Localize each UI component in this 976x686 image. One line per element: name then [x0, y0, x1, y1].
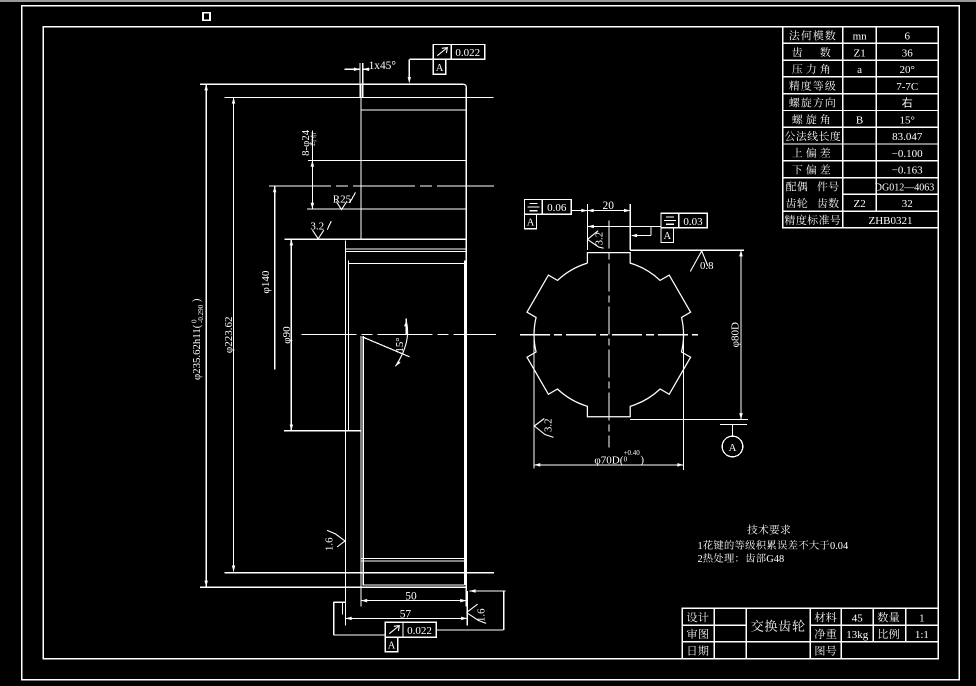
svg-text:1: 1 — [919, 612, 925, 624]
svg-text:0.04: 0.04 — [830, 541, 849, 552]
svg-text:φ235.62h11(: φ235.62h11( — [191, 324, 203, 380]
svg-text:): ) — [640, 454, 644, 466]
svg-text:1.6: 1.6 — [324, 537, 336, 551]
svg-text:0.8: 0.8 — [700, 260, 714, 272]
svg-text:20°: 20° — [899, 64, 914, 76]
svg-text:A: A — [388, 640, 396, 651]
svg-text:15°: 15° — [899, 114, 914, 126]
svg-text:0.03: 0.03 — [683, 216, 703, 228]
svg-text:1: 1 — [698, 541, 703, 552]
svg-text:−0.100: −0.100 — [892, 148, 923, 160]
svg-text:R25: R25 — [333, 193, 352, 205]
svg-text:A: A — [664, 231, 672, 242]
svg-text:Z1: Z1 — [853, 47, 865, 59]
svg-text:φ70D(: φ70D( — [594, 454, 623, 466]
svg-text:13kg: 13kg — [846, 629, 869, 641]
svg-text:6: 6 — [904, 31, 910, 43]
svg-text:1:1: 1:1 — [915, 629, 929, 641]
svg-text:20: 20 — [603, 200, 615, 212]
svg-text:φ140: φ140 — [260, 270, 272, 293]
svg-text:2: 2 — [698, 554, 703, 565]
svg-text:A: A — [527, 217, 535, 228]
svg-text:右: 右 — [902, 96, 913, 110]
svg-text:ZHB0321: ZHB0321 — [869, 215, 913, 227]
svg-text:1x45°: 1x45° — [369, 60, 396, 72]
svg-text:G48: G48 — [766, 554, 784, 565]
svg-text:3.2: 3.2 — [543, 419, 555, 433]
svg-text:): ) — [192, 299, 203, 302]
svg-text:−0.163: −0.163 — [892, 165, 923, 177]
svg-text:57: 57 — [400, 608, 412, 620]
svg-text:0.06: 0.06 — [547, 202, 567, 214]
svg-text:mn: mn — [853, 31, 868, 43]
svg-text:A: A — [436, 63, 444, 74]
svg-text:1.6: 1.6 — [476, 608, 488, 622]
svg-text:a: a — [857, 64, 862, 76]
svg-text:7-7C: 7-7C — [896, 81, 918, 93]
svg-text:36: 36 — [902, 47, 914, 59]
svg-text:3.2: 3.2 — [593, 232, 605, 246]
svg-text:32: 32 — [902, 198, 913, 210]
svg-text:φ223.62: φ223.62 — [223, 316, 235, 353]
svg-text:DG012—4063: DG012—4063 — [875, 183, 934, 194]
svg-text:Z2: Z2 — [853, 198, 865, 210]
svg-text:A: A — [729, 442, 737, 454]
svg-text:0.022: 0.022 — [455, 47, 480, 59]
svg-text:0: 0 — [624, 456, 628, 464]
svg-text:-0.290: -0.290 — [197, 304, 205, 323]
svg-text:83.047: 83.047 — [892, 131, 923, 143]
svg-text:φ80D: φ80D — [729, 322, 741, 347]
svg-text:45: 45 — [852, 612, 864, 624]
svg-text:0.022: 0.022 — [407, 625, 432, 637]
svg-text:15°: 15° — [394, 337, 406, 352]
svg-text:φ90: φ90 — [281, 326, 293, 344]
svg-text:50: 50 — [405, 591, 417, 603]
svg-text:B: B — [856, 114, 863, 126]
